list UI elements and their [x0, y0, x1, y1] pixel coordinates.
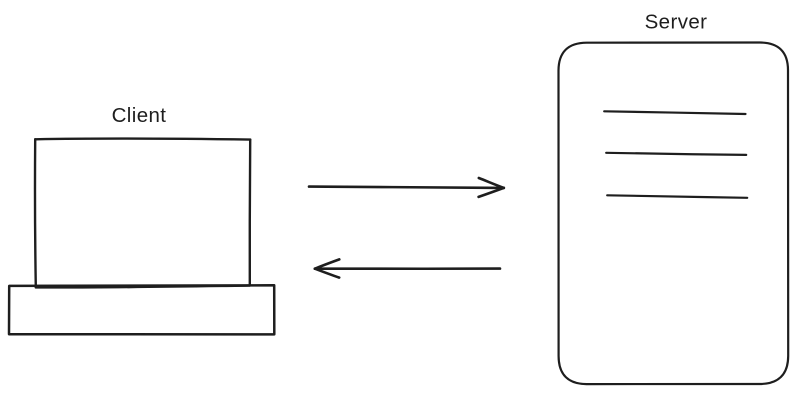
svg-text:Client: Client — [112, 104, 167, 127]
server line 1 — [604, 111, 745, 114]
client laptop screen — [35, 139, 250, 288]
client laptop base — [9, 285, 274, 334]
server line 3 — [607, 195, 747, 198]
arrow response (server to client) — [315, 259, 500, 277]
svg-text:Server: Server — [645, 10, 708, 33]
arrow request (client to server) — [309, 178, 504, 197]
server line 2 — [606, 153, 746, 155]
server box — [559, 43, 789, 385]
